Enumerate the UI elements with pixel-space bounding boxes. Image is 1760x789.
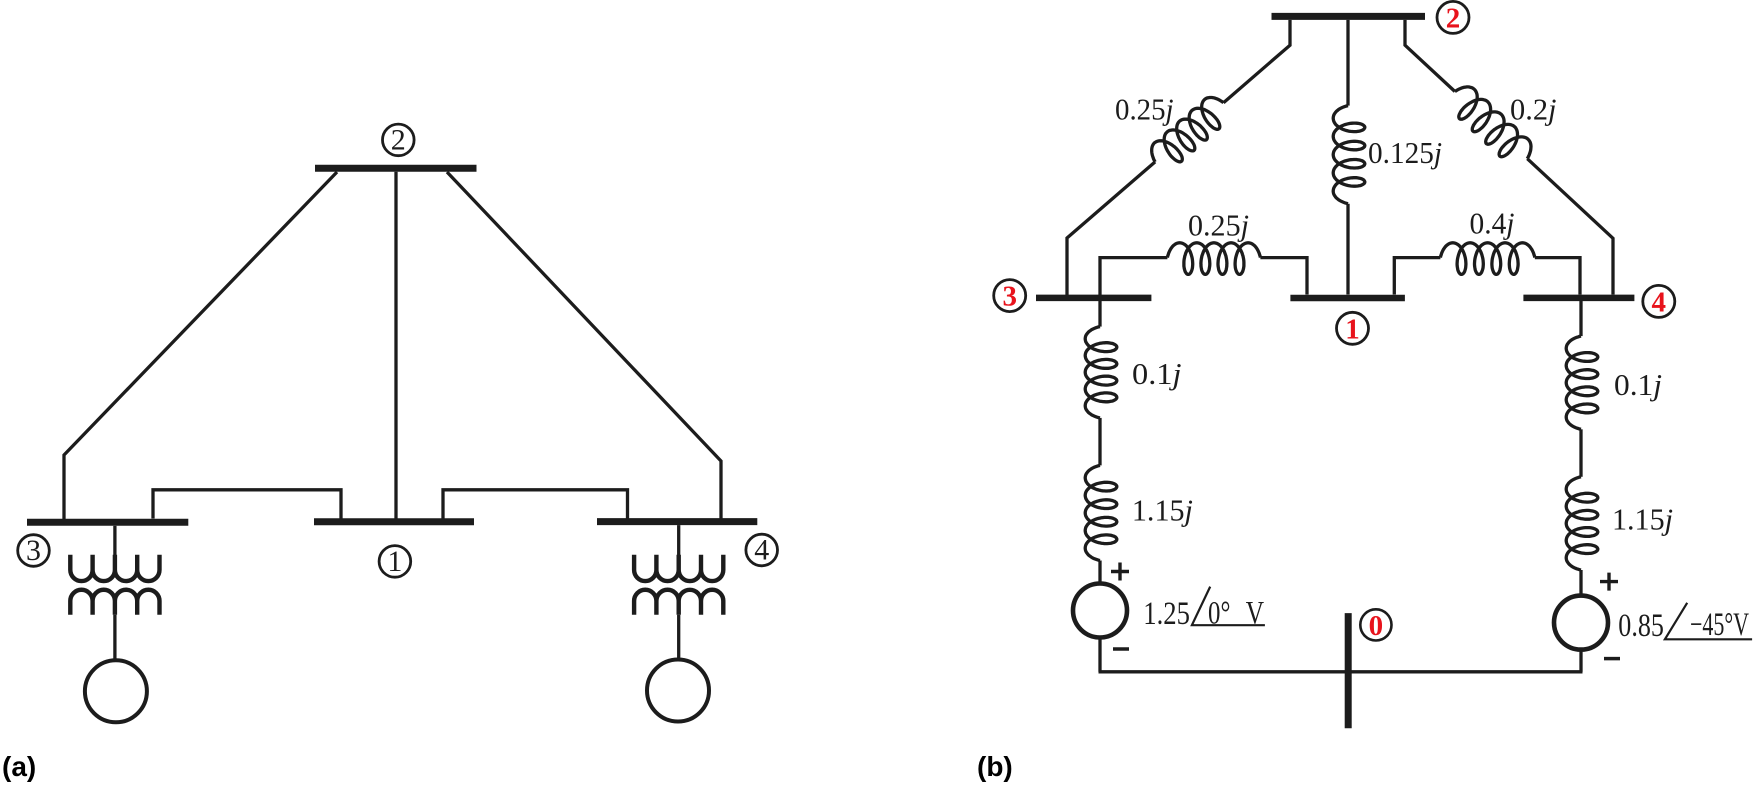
voltage source V3 (b): [1073, 584, 1127, 638]
inductor L21 0.125j (b): [1333, 106, 1365, 204]
node label 3 (b): [994, 280, 1026, 313]
transformer T4 primary (a): [634, 555, 723, 581]
wire between coils left (b): [1098, 418, 1101, 466]
node label 2 (a): [383, 124, 415, 157]
svg-text:2: 2: [1446, 2, 1461, 34]
wire source to bottom left (b): [1098, 639, 1101, 671]
label 1.25 angle 0 V: [1143, 587, 1265, 633]
reference bus 0 (b): [1345, 613, 1352, 728]
svg-text:0.4j: 0.4j: [1470, 206, 1515, 241]
wire coil to source left (b): [1098, 561, 1101, 583]
svg-text:2: 2: [391, 124, 406, 157]
plus sign right source: [1600, 573, 1618, 591]
transformer T4 secondary (a): [634, 590, 723, 615]
bus 1 (a): [314, 518, 474, 525]
generator G4 (a): [647, 660, 709, 722]
wire bus1 to L14 (b): [1394, 258, 1440, 295]
node label 1 (a): [379, 545, 411, 578]
transformer T3 secondary (a): [70, 590, 159, 615]
transformer T3 primary (a): [70, 555, 159, 581]
wire coil to source right (b): [1579, 570, 1582, 594]
wire bus3-transformer (a): [113, 526, 116, 560]
bus 3 (b): [1036, 295, 1151, 302]
inductor L24 0.2j (b): [1455, 87, 1531, 159]
bus 2 (b): [1272, 13, 1426, 20]
wire between coils right (b): [1579, 429, 1582, 477]
node label 3 (a): [18, 534, 50, 567]
voltage source V4 (b): [1554, 596, 1608, 650]
svg-text:(a): (a): [2, 751, 36, 782]
minus sign right source: [1604, 657, 1620, 661]
wire bus3 to L31 (b): [1100, 258, 1167, 296]
node label 4 (b): [1643, 285, 1675, 318]
svg-text:0.2j: 0.2j: [1510, 91, 1557, 126]
svg-text:4: 4: [754, 534, 769, 567]
wire L21 to bus1 (b): [1346, 204, 1349, 295]
svg-text:V: V: [1246, 596, 1264, 632]
node label 1 (b): [1337, 312, 1369, 345]
plus sign left source: [1111, 563, 1129, 581]
svg-text:0.85: 0.85: [1618, 608, 1664, 644]
svg-text:0.125j: 0.125j: [1368, 135, 1442, 170]
wire line 2-1 (a): [394, 172, 397, 519]
wire source to bottom right (b): [1579, 651, 1582, 672]
bus 4 (a): [597, 518, 757, 525]
wire L24 to bus4 (b): [1527, 159, 1613, 295]
wire line 2-3 (a): [64, 172, 337, 519]
wire bus2 to L24 (b): [1405, 20, 1455, 92]
svg-text:1.15j: 1.15j: [1132, 493, 1193, 528]
wire bus2 to L21 (b): [1346, 20, 1349, 106]
bus 3 (a): [27, 519, 188, 526]
svg-text:1.15j: 1.15j: [1612, 502, 1673, 537]
wire bottom node 0 (b): [1099, 670, 1583, 673]
svg-text:3: 3: [26, 534, 41, 567]
svg-text:0.25j: 0.25j: [1188, 208, 1249, 243]
svg-text:0°: 0°: [1208, 596, 1230, 632]
inductor 0.1j left (b): [1085, 327, 1117, 418]
generator G3 (a): [85, 660, 147, 722]
svg-text:(b): (b): [977, 751, 1013, 782]
inductor L14 0.4j (b): [1440, 243, 1534, 275]
wire L14 to bus4 (b): [1535, 258, 1580, 295]
wire line 1-4 (a): [443, 490, 628, 519]
wire bus3 down (b): [1098, 301, 1101, 327]
svg-text:4: 4: [1652, 286, 1667, 318]
wire transformer-generator (a, right): [677, 615, 680, 659]
wire L31 to bus1 (b): [1260, 258, 1307, 295]
inductor 1.15j left (b): [1085, 465, 1117, 560]
inductor L23 0.25j (b): [1152, 98, 1224, 162]
bus 2 (a): [315, 165, 477, 172]
svg-text:0.1j: 0.1j: [1132, 356, 1182, 391]
svg-text:0.1j: 0.1j: [1614, 367, 1662, 402]
bus 1 (b): [1290, 295, 1405, 302]
wire bus4 down (b): [1579, 301, 1582, 336]
inductor L31 0.25j (b): [1167, 243, 1260, 275]
svg-text:0: 0: [1369, 610, 1384, 642]
wire transformer-generator (a, left): [113, 615, 116, 660]
node label 4 (a): [746, 534, 778, 567]
wire L23 to bus3 (b): [1067, 162, 1155, 298]
svg-text:1: 1: [1345, 313, 1360, 345]
svg-text:0.25j: 0.25j: [1115, 92, 1174, 127]
node label 0 (b): [1360, 609, 1391, 642]
svg-text:1.25: 1.25: [1143, 596, 1190, 632]
wire line 3-1 (a): [153, 490, 341, 519]
svg-text:3: 3: [1002, 281, 1017, 313]
minus sign left source: [1113, 647, 1129, 651]
bus 4 (b): [1523, 295, 1634, 302]
wire bus2 to L23 (b): [1224, 20, 1291, 103]
inductor 0.1j right (b): [1566, 336, 1598, 429]
svg-text:−45°V: −45°V: [1690, 607, 1749, 643]
node label 2 (b): [1437, 1, 1469, 34]
wire line 2-4 (a): [447, 172, 721, 519]
label 0.85 angle -45 V: [1618, 603, 1752, 644]
wire bus4-transformer (a): [677, 525, 680, 560]
svg-text:1: 1: [387, 545, 402, 578]
inductor 1.15j right (b): [1566, 477, 1598, 570]
